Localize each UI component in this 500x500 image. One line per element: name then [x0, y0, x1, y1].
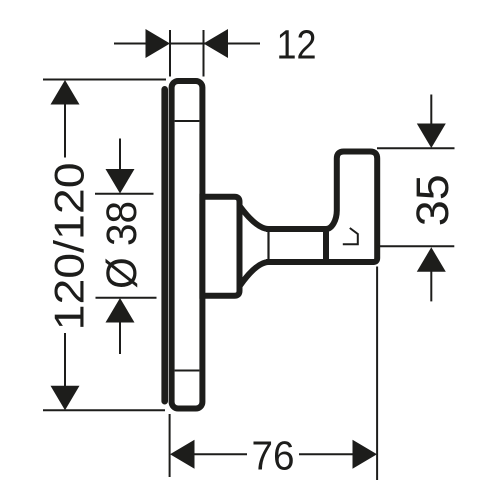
stem bottom line [266, 259, 374, 265]
arrow down [106, 169, 135, 194]
wall flange bar (thin back plate) [161, 86, 168, 405]
dim line right [204, 43, 261, 45]
dimension Ø38 (boss diameter) [95, 139, 157, 355]
extension line left [169, 414, 171, 477]
arrow up [106, 298, 135, 323]
escutcheon plate outline [172, 81, 203, 409]
dim line lower [64, 333, 66, 387]
extension line right [376, 267, 378, 481]
extension line top [377, 147, 455, 149]
dim line middle [170, 43, 204, 45]
svg-text:12: 12 [277, 21, 317, 67]
extension line bottom [43, 409, 165, 411]
dim line upper [119, 139, 121, 171]
tick line top [95, 193, 154, 195]
dim line lower [119, 322, 121, 355]
dim line lower [430, 270, 432, 301]
tick line bottom [96, 297, 157, 299]
arrow left [146, 29, 171, 58]
dimension 12 (plate depth) [114, 21, 317, 76]
dim line upper [64, 103, 66, 158]
dimension 35 (lever height) [377, 95, 458, 302]
lever inner corner mark [343, 228, 358, 244]
arrow right [353, 440, 378, 469]
cone bottom curve [240, 262, 269, 286]
svg-text:35: 35 [407, 174, 458, 226]
extension line bottom [377, 245, 454, 247]
dimension 120/120 (plate height) [43, 80, 166, 411]
svg-text:76: 76 [252, 433, 295, 479]
arrow down [417, 124, 446, 149]
dim line left [114, 43, 147, 45]
arrow down [51, 386, 80, 411]
extension line left [169, 30, 171, 77]
extension line right [203, 30, 205, 77]
dim line upper [430, 95, 432, 126]
stem top line [266, 226, 327, 232]
dim line left [193, 453, 247, 455]
svg-text:120/120: 120/120 [45, 162, 92, 330]
plate seam line bottom [175, 370, 200, 372]
plate seam line top [175, 120, 200, 122]
dim line right [299, 453, 354, 455]
arrow left [170, 440, 195, 469]
lever handle outline [326, 152, 377, 263]
cone-stem seam [267, 229, 269, 262]
cone top curve [240, 207, 269, 230]
arrow right [204, 29, 229, 58]
svg-text:Ø 38: Ø 38 [98, 201, 146, 289]
arrow up [51, 80, 80, 105]
extension line top [43, 79, 166, 81]
dimension 76 (overall depth) [170, 267, 378, 481]
arrow up [417, 247, 446, 271]
handle boss [202, 197, 239, 296]
